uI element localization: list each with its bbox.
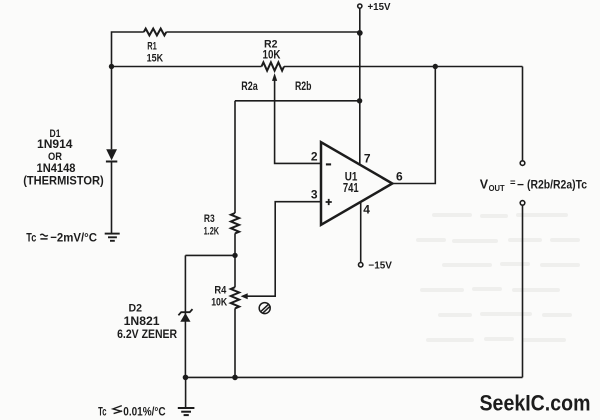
svg-text:6.2V ZENER: 6.2V ZENER [117, 329, 178, 341]
zener diode D2 [178, 309, 192, 322]
resistor R2 potentiometer [262, 62, 285, 70]
terminal +15V [358, 4, 362, 8]
svg-text:D2: D2 [129, 303, 143, 315]
junction: top rail / +15V vertical [357, 30, 363, 36]
svg-text:Tc: Tc [26, 231, 36, 245]
svg-text:R2a: R2a [241, 81, 258, 93]
ground (bottom rail) [178, 377, 195, 415]
wire: R2a rail (D1 anode to R2 left end) [112, 66, 262, 68]
svg-text:R3: R3 [204, 213, 215, 225]
terminal Vout lower [520, 201, 525, 206]
svg-text:10K: 10K [211, 296, 228, 308]
svg-text:−2mV/°C: −2mV/°C [50, 231, 97, 245]
svg-text:2: 2 [311, 150, 318, 164]
wire: zener top link [185, 254, 235, 256]
svg-text:1N4148: 1N4148 [37, 163, 77, 175]
resistor R1 [144, 29, 167, 36]
ground (D1 cathode) [105, 234, 120, 241]
svg-text:7: 7 [364, 151, 371, 165]
svg-text:V: V [480, 177, 489, 191]
terminal Vout upper [520, 161, 525, 166]
op-amp plus sign [326, 199, 332, 205]
junction: zener / bottom rail [183, 375, 189, 381]
junction: left vertical / R2a rail [109, 64, 114, 69]
label Tc = -2mV/degC [26, 231, 97, 245]
svg-text:741: 741 [343, 180, 359, 195]
svg-text:(R2b/R2a)Tc: (R2b/R2a)Tc [527, 177, 587, 191]
wire: top rail (R1 net, +15V to D1 anode) [112, 32, 360, 67]
svg-text:1N821: 1N821 [124, 316, 161, 328]
wire: +15V vertical to op-amp pin 7 [359, 8, 361, 164]
wire: pin 6 output to feedback [392, 67, 435, 184]
wire: bottom ground rail [185, 376, 522, 378]
svg-text:R1: R1 [147, 40, 157, 52]
junction: zener top / R3-R4 node [232, 253, 237, 258]
svg-text:Tc: Tc [98, 404, 107, 418]
label Tc 0.01 percent [98, 404, 166, 418]
wire: mid vertical (R3/R4 branch) [234, 101, 236, 378]
svg-text:6: 6 [396, 169, 403, 183]
svg-text:10K: 10K [263, 50, 282, 62]
svg-text:1N914: 1N914 [37, 139, 73, 151]
op-amp minus sign [326, 163, 331, 165]
diode D1 [106, 149, 117, 161]
wire: R3 feed (R3 top to +15V) [235, 100, 360, 102]
svg-text:4: 4 [363, 203, 370, 217]
wire: R2b rail (R2 right end to Vout terminal) [284, 66, 523, 68]
svg-text:=: = [510, 178, 516, 189]
resistor R3 [231, 213, 239, 233]
wire: pin 4 to -15V [360, 203, 362, 263]
svg-text:−: − [517, 177, 524, 191]
label Vout equation [480, 177, 587, 193]
svg-text:OR: OR [48, 151, 62, 163]
svg-text:R2b: R2b [295, 81, 312, 93]
svg-text:3: 3 [311, 187, 318, 201]
svg-text:0.01%/°C: 0.01%/°C [123, 404, 165, 418]
wire: Vout lower vertical to ground rail [522, 205, 524, 377]
resistor R4 potentiometer [231, 287, 239, 308]
junction: feedback / R2b rail [433, 64, 438, 69]
wire: zener vertical [184, 255, 186, 377]
svg-text:OUT: OUT [489, 183, 506, 193]
R4 wiper arrow / wire to pin 3 [241, 202, 321, 300]
op-amp U1 triangle [321, 142, 392, 225]
svg-text:−15V: −15V [368, 260, 392, 271]
svg-text:1.2K: 1.2K [204, 225, 220, 237]
trimmer adjust symbol [259, 303, 270, 314]
junction: R4 bottom / bottom rail [232, 375, 238, 381]
svg-text:(THERMISTOR): (THERMISTOR) [23, 176, 104, 188]
R2 wiper arrow / wire to pin 2 [272, 73, 321, 163]
terminal -15V [359, 263, 363, 267]
svg-text:15K: 15K [147, 52, 164, 64]
svg-text:+15V: +15V [368, 2, 391, 13]
svg-text:SeekIC.com: SeekIC.com [480, 391, 591, 416]
svg-text:R4: R4 [214, 284, 227, 296]
junction: R3 feed / +15V vertical [357, 98, 362, 103]
wire: Vout upper vertical [522, 67, 524, 161]
wire: left vertical (D1 branch) [111, 67, 113, 234]
